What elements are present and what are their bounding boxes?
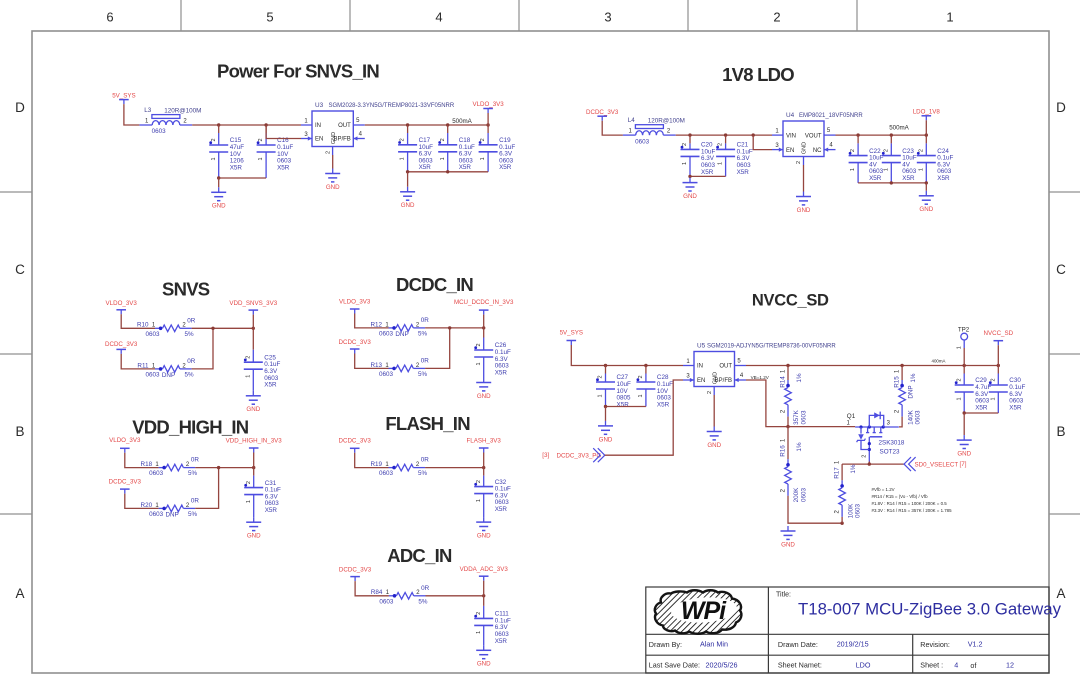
- svg-text:2: 2: [850, 149, 856, 152]
- svg-text:VLDO_3V3: VLDO_3V3: [106, 300, 138, 307]
- svg-text:2: 2: [956, 378, 962, 381]
- power flag DCDC_3V3: [586, 109, 619, 121]
- svg-text:Revision:: Revision:: [920, 640, 950, 649]
- wire: [901, 366, 903, 381]
- svg-text:X5R: X5R: [617, 401, 630, 408]
- svg-text:GND: GND: [957, 451, 971, 458]
- capacitor C17: [398, 125, 433, 172]
- svg-text:GND: GND: [781, 541, 795, 548]
- wire: [355, 581, 389, 596]
- capacitor C19: [479, 125, 516, 172]
- svg-text:GND: GND: [246, 406, 260, 413]
- svg-text:Drawn Date:: Drawn Date:: [778, 640, 818, 649]
- svg-text:5V_SYS: 5V_SYS: [560, 330, 583, 337]
- wire: [746, 364, 1000, 367]
- svg-text:1: 1: [946, 10, 953, 25]
- svg-text:1: 1: [850, 168, 856, 171]
- wire: [676, 133, 772, 136]
- svg-text:GND: GND: [802, 142, 808, 154]
- svg-text:ADC_IN: ADC_IN: [387, 545, 452, 566]
- wire: [713, 395, 715, 427]
- resistor R16: [780, 438, 808, 502]
- svg-text:12: 12: [1006, 660, 1014, 669]
- wire: [425, 326, 485, 329]
- svg-text:DCDC_3V3: DCDC_3V3: [339, 438, 372, 445]
- svg-text:0603: 0603: [379, 470, 394, 477]
- svg-text:500mA: 500mA: [889, 125, 909, 132]
- svg-text:3: 3: [604, 10, 611, 25]
- svg-text:1: 1: [718, 162, 724, 165]
- svg-text:DCDC_3V3: DCDC_3V3: [586, 109, 619, 116]
- power flag 5V_SYS: [112, 92, 135, 104]
- ground: [598, 421, 613, 443]
- svg-text:1: 1: [246, 500, 252, 503]
- wire: [689, 176, 691, 177]
- svg-text:2: 2: [258, 138, 264, 141]
- wire: [406, 170, 488, 173]
- power flag LDO_1V8: [913, 109, 941, 121]
- wire: [963, 348, 965, 366]
- svg-text:OUT: OUT: [338, 123, 351, 129]
- wire: [252, 315, 254, 329]
- capacitor C26: [474, 328, 511, 378]
- wire: [899, 417, 902, 427]
- IC U4: [772, 112, 863, 165]
- svg-text:R13: R13: [370, 362, 382, 369]
- wire: [217, 176, 266, 179]
- power flag MCU_DCDC_IN_3V3: [454, 299, 514, 315]
- resistor R13: [370, 357, 429, 378]
- wire: [925, 183, 927, 191]
- svg-text:X5R: X5R: [495, 506, 508, 513]
- power flag VDD_SNVS_3V3: [229, 300, 277, 315]
- wire: [192, 328, 213, 369]
- resistor R19: [370, 457, 429, 478]
- wire: [355, 314, 389, 328]
- svg-text:Alan Min: Alan Min: [700, 639, 728, 648]
- svg-text:1: 1: [476, 499, 482, 502]
- wire: [425, 328, 450, 369]
- svg-text:U3: U3: [315, 102, 324, 109]
- ground: [957, 435, 972, 457]
- svg-text:R17: R17: [834, 467, 841, 479]
- svg-text:2: 2: [476, 480, 482, 483]
- power flag DCDC_3V3: [339, 567, 372, 582]
- title block: [646, 587, 1049, 673]
- ground: [246, 517, 261, 539]
- capacitor C31: [244, 468, 281, 518]
- svg-text:B: B: [15, 424, 24, 439]
- capacitor C24: [917, 135, 954, 183]
- svg-text:R11: R11: [137, 362, 149, 369]
- power flag DCDC_3V3: [109, 478, 142, 493]
- svg-text:5%: 5%: [188, 470, 198, 477]
- svg-text:0603: 0603: [635, 138, 650, 145]
- svg-text:1: 1: [918, 168, 924, 171]
- resistor R15: [894, 369, 922, 425]
- capacitor C25: [244, 328, 281, 391]
- svg-text:FLASH_IN: FLASH_IN: [385, 413, 470, 434]
- svg-text:GND: GND: [477, 661, 491, 668]
- wire: [125, 494, 159, 509]
- svg-text:#R14 / R15 = (Vo - Vfb) / Vfb: #R14 / R15 = (Vo - Vfb) / Vfb: [872, 494, 929, 499]
- wire: [355, 354, 389, 369]
- svg-text:2: 2: [773, 10, 780, 25]
- svg-text:DCDC_3V3: DCDC_3V3: [339, 567, 372, 574]
- svg-text:X5R: X5R: [264, 382, 277, 389]
- wire: [787, 417, 789, 427]
- svg-text:1%: 1%: [850, 464, 857, 474]
- svg-text:1%: 1%: [910, 373, 917, 383]
- wire: [605, 407, 607, 421]
- wire: [483, 453, 485, 468]
- svg-text:2: 2: [598, 375, 604, 378]
- wire: [407, 172, 409, 187]
- svg-text:DCDC_3V3_PG: DCDC_3V3_PG: [557, 453, 602, 460]
- ground: [400, 187, 415, 209]
- svg-text:X5R: X5R: [657, 401, 670, 408]
- wire: [605, 380, 683, 455]
- power flag VDD_HIGH_IN_3V3: [226, 438, 283, 453]
- capacitor C28: [636, 366, 673, 409]
- svg-text:140K: 140K: [907, 409, 914, 425]
- svg-text:GND: GND: [212, 203, 226, 210]
- svg-text:LDO_1V8: LDO_1V8: [913, 109, 941, 116]
- svg-text:R10: R10: [137, 322, 149, 329]
- svg-text:GND: GND: [707, 442, 721, 449]
- svg-text:DNP: DNP: [907, 385, 914, 398]
- svg-text:VDDA_ADC_3V3: VDDA_ADC_3V3: [460, 566, 509, 573]
- svg-text:X5R: X5R: [902, 175, 915, 182]
- svg-text:1: 1: [682, 162, 688, 165]
- ground: [707, 427, 722, 449]
- svg-text:6: 6: [106, 10, 113, 25]
- svg-text:0603: 0603: [149, 511, 164, 518]
- power flag 5V_SYS: [560, 330, 583, 345]
- wire: [925, 120, 927, 135]
- ground: [476, 645, 491, 667]
- svg-text:SGM2028-3.3YN5G/TREMP8021-33VF: SGM2028-3.3YN5G/TREMP8021-33VF05NRR: [329, 103, 455, 109]
- svg-text:#Vfb = 1.2V: #Vfb = 1.2V: [872, 487, 895, 492]
- junction: [786, 425, 789, 428]
- resistor R18: [141, 457, 200, 478]
- svg-text:X5R: X5R: [419, 164, 432, 171]
- ground: [796, 192, 811, 214]
- svg-text:Drawn By:: Drawn By:: [649, 640, 682, 649]
- power flag NVCC_SD: [984, 330, 1014, 345]
- test point TP2: [956, 326, 969, 349]
- svg-text:500mA: 500mA: [452, 118, 472, 125]
- resistor R84: [371, 585, 430, 606]
- capacitor C23: [882, 135, 917, 183]
- svg-text:VIN: VIN: [786, 133, 796, 139]
- svg-text:0603: 0603: [855, 504, 862, 519]
- svg-text:2: 2: [480, 138, 486, 141]
- svg-text:IN: IN: [315, 123, 321, 129]
- inductor L4: [623, 117, 685, 145]
- wire: [787, 427, 789, 460]
- svg-text:R15: R15: [894, 376, 901, 388]
- svg-text:5%: 5%: [418, 371, 428, 378]
- svg-text:A: A: [15, 586, 24, 601]
- svg-text:X5R: X5R: [265, 507, 278, 514]
- svg-text:2: 2: [246, 481, 252, 484]
- capacitor C16: [257, 125, 294, 178]
- svg-text:SOT23: SOT23: [880, 448, 900, 455]
- resistor R10: [137, 317, 196, 338]
- svg-text:R18: R18: [141, 461, 153, 468]
- power flag VLDO_3V3: [109, 437, 141, 453]
- svg-text:SGM2019-ADJYN5G/TREMP8736-00VF: SGM2019-ADJYN5G/TREMP8736-00VF05NRR: [707, 344, 836, 350]
- wire: [365, 123, 490, 126]
- svg-text:1: 1: [956, 346, 962, 349]
- svg-text:IN: IN: [697, 364, 703, 370]
- wire: [788, 426, 855, 428]
- svg-text:4: 4: [435, 10, 442, 25]
- svg-text:0603: 0603: [379, 331, 394, 338]
- svg-text:R12: R12: [370, 321, 382, 328]
- svg-text:VOUT: VOUT: [805, 133, 822, 139]
- svg-text:120R@100M: 120R@100M: [164, 107, 201, 114]
- svg-text:R14: R14: [780, 376, 787, 388]
- svg-text:V1.2: V1.2: [968, 639, 983, 648]
- svg-text:100K: 100K: [847, 503, 854, 519]
- wire: [121, 354, 155, 369]
- ground: [325, 169, 340, 191]
- IC U5: [683, 343, 836, 396]
- svg-text:VDD_SNVS_3V3: VDD_SNVS_3V3: [229, 300, 277, 307]
- power flag VLDO_3V3: [472, 101, 504, 113]
- svg-text:0603: 0603: [801, 488, 808, 503]
- ground: [476, 378, 491, 400]
- svg-text:U5: U5: [697, 343, 706, 350]
- svg-text:2: 2: [476, 612, 482, 615]
- svg-text:2: 2: [918, 149, 924, 152]
- svg-text:#3.3V : R14 / R15 = 357K / 200: #3.3V : R14 / R15 = 357K / 200K = 1.785: [872, 508, 953, 513]
- IC U3: [301, 102, 455, 155]
- capacitor C32: [474, 468, 511, 517]
- svg-text:R84: R84: [371, 589, 383, 596]
- svg-text:1: 1: [440, 157, 446, 160]
- svg-text:[7]: [7]: [959, 461, 966, 468]
- svg-text:L4: L4: [628, 117, 636, 124]
- svg-text:#1.8V : R14 / R15 = 100K / 200: #1.8V : R14 / R15 = 100K / 200K = 0.5: [872, 501, 948, 506]
- svg-text:L3: L3: [144, 107, 152, 114]
- svg-text:U4: U4: [786, 112, 795, 119]
- svg-text:1: 1: [476, 631, 482, 634]
- ground: [246, 391, 261, 413]
- svg-text:X5R: X5R: [869, 175, 882, 182]
- svg-text:VLDO_3V3: VLDO_3V3: [339, 298, 371, 305]
- svg-text:EN: EN: [697, 378, 705, 384]
- wire: [858, 181, 928, 184]
- column labels: [106, 10, 953, 25]
- svg-text:VB=1.2V: VB=1.2V: [751, 375, 770, 380]
- svg-text:Sheet :: Sheet :: [920, 660, 943, 669]
- wire: [688, 175, 725, 178]
- svg-text:1: 1: [258, 157, 264, 160]
- wire: [803, 165, 805, 192]
- svg-text:D: D: [15, 100, 25, 115]
- svg-text:C: C: [15, 262, 25, 277]
- capacitor C21: [716, 135, 753, 176]
- svg-text:GND: GND: [599, 436, 613, 443]
- svg-text:0R: 0R: [191, 457, 200, 464]
- svg-text:DNP: DNP: [395, 331, 408, 338]
- power flag FLASH_3V3: [466, 438, 501, 453]
- svg-text:GND: GND: [247, 533, 261, 540]
- ground: [683, 178, 698, 200]
- svg-text:0R: 0R: [187, 358, 196, 365]
- wire: [604, 405, 646, 408]
- power flag DCDC_3V3: [105, 341, 138, 354]
- svg-text:X5R: X5R: [495, 369, 508, 376]
- svg-text:GND: GND: [326, 184, 340, 191]
- svg-text:DCDC_3V3: DCDC_3V3: [105, 341, 138, 348]
- row labels: [15, 100, 1066, 601]
- ground: [211, 187, 226, 209]
- wire: [121, 314, 155, 328]
- capacitor C18: [438, 125, 475, 172]
- node 5V_SYS wire: [124, 104, 139, 125]
- svg-text:5%: 5%: [184, 331, 194, 338]
- capacitor C15: [209, 125, 244, 178]
- svg-text:X5R: X5R: [459, 164, 472, 171]
- power flag VLDO_3V3: [106, 300, 138, 314]
- svg-text:0603: 0603: [801, 410, 808, 425]
- wire: [841, 517, 843, 523]
- wire: [487, 113, 489, 125]
- svg-text:NC: NC: [813, 148, 822, 154]
- svg-text:4: 4: [954, 660, 958, 669]
- wire: [836, 133, 929, 136]
- svg-text:X5R: X5R: [230, 164, 243, 171]
- svg-text:DCDC_3V3: DCDC_3V3: [109, 478, 142, 485]
- wire: [963, 413, 965, 435]
- svg-text:5%: 5%: [184, 372, 194, 379]
- svg-text:200K: 200K: [793, 487, 800, 503]
- svg-text:[3]: [3]: [542, 452, 549, 459]
- wire: [355, 453, 389, 468]
- svg-text:0603: 0603: [379, 598, 394, 605]
- svg-text:0R: 0R: [191, 497, 200, 504]
- svg-text:0R: 0R: [187, 317, 196, 324]
- svg-text:5%: 5%: [418, 470, 428, 477]
- svg-text:VDD_HIGH_IN: VDD_HIGH_IN: [132, 417, 249, 438]
- svg-text:357K: 357K: [793, 409, 800, 425]
- wire: [842, 462, 904, 465]
- svg-text:VLDO_3V3: VLDO_3V3: [109, 437, 141, 444]
- svg-text:EMP8021_18VF05NRR: EMP8021_18VF05NRR: [799, 113, 863, 119]
- svg-text:Title:: Title:: [776, 592, 791, 599]
- svg-text:D: D: [1056, 100, 1066, 115]
- resistor R20: [141, 497, 200, 518]
- svg-text:GND: GND: [477, 533, 491, 540]
- wire: [426, 594, 486, 597]
- wire: [195, 468, 218, 509]
- wire: [425, 466, 485, 469]
- resistor R17: [834, 460, 862, 518]
- svg-text:Sheet Namet:: Sheet Namet:: [778, 660, 822, 669]
- wire: [192, 123, 301, 126]
- ground: [476, 517, 491, 539]
- capacitor C29: [955, 366, 992, 414]
- transistor Q1: [847, 412, 905, 462]
- junction: [604, 364, 607, 367]
- wire: [963, 411, 999, 414]
- ground: [781, 526, 796, 548]
- svg-text:5V_SYS: 5V_SYS: [112, 92, 135, 99]
- capacitor C111: [474, 596, 511, 646]
- svg-text:1V8 LDO: 1V8 LDO: [722, 64, 794, 85]
- svg-text:2020/5/26: 2020/5/26: [706, 660, 738, 669]
- svg-text:1%: 1%: [796, 442, 803, 452]
- svg-text:OUT: OUT: [719, 364, 732, 370]
- svg-text:1: 1: [990, 397, 996, 400]
- svg-text:0R: 0R: [421, 585, 430, 592]
- svg-text:WPi: WPi: [681, 597, 727, 625]
- capacitor C30: [989, 366, 1026, 414]
- svg-text:1: 1: [956, 397, 962, 400]
- svg-text:2: 2: [883, 149, 889, 152]
- svg-text:R16: R16: [780, 445, 787, 457]
- wire: [746, 380, 788, 427]
- off-page connector SD0_VSELECT: [904, 457, 967, 471]
- svg-text:2: 2: [211, 138, 217, 141]
- capacitor C20: [681, 135, 716, 176]
- svg-text:VLDO_3V3: VLDO_3V3: [472, 101, 504, 108]
- svg-text:Last Save Date:: Last Save Date:: [649, 660, 700, 669]
- wire: [571, 345, 683, 366]
- off-page connector DCDC_3V3_PG: [542, 448, 605, 462]
- svg-text:LDO: LDO: [856, 660, 871, 669]
- svg-text:T18-007 MCU-ZigBee 3.0 Gateway: T18-007 MCU-ZigBee 3.0 Gateway: [798, 600, 1062, 619]
- svg-text:2: 2: [245, 356, 251, 359]
- svg-text:X5R: X5R: [277, 164, 290, 171]
- svg-text:400mA: 400mA: [932, 359, 946, 364]
- svg-text:GND: GND: [331, 132, 337, 144]
- svg-text:TP2: TP2: [958, 326, 970, 333]
- svg-text:2019/2/15: 2019/2/15: [837, 639, 869, 648]
- svg-text:R20: R20: [141, 502, 153, 509]
- svg-text:5%: 5%: [188, 511, 198, 518]
- svg-text:GND: GND: [713, 372, 719, 384]
- svg-text:GND: GND: [683, 193, 697, 200]
- svg-text:1: 1: [400, 157, 406, 160]
- inductor L3: [139, 107, 201, 135]
- wire: [483, 315, 485, 328]
- wire: [195, 466, 255, 469]
- svg-text:1: 1: [638, 394, 644, 397]
- svg-text:EN: EN: [315, 137, 323, 143]
- svg-text:X5R: X5R: [495, 638, 508, 645]
- svg-text:GND: GND: [401, 202, 415, 209]
- wire: [602, 121, 623, 135]
- svg-text:NVCC_SD: NVCC_SD: [984, 330, 1014, 337]
- svg-text:0603: 0603: [915, 410, 922, 425]
- resistor R14: [780, 369, 808, 425]
- svg-text:2: 2: [862, 455, 868, 458]
- svg-text:1: 1: [598, 394, 604, 397]
- wire: [868, 462, 870, 465]
- svg-text:0R: 0R: [421, 317, 430, 324]
- svg-text:GND: GND: [797, 207, 811, 214]
- svg-text:0603: 0603: [149, 470, 164, 477]
- wire: [253, 453, 255, 468]
- svg-text:X5R: X5R: [975, 404, 988, 411]
- wire: [753, 135, 772, 150]
- svg-text:5%: 5%: [418, 331, 428, 338]
